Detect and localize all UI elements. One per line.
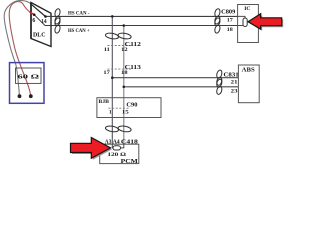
twisted pair symbol at C418 (horizontal) — [105, 125, 119, 133]
resistor IC termination capsule — [243, 18, 247, 27]
wire DLC pin 14 lead — [30, 3, 45, 16]
node junction HS CAN - / drop — [111, 15, 114, 18]
twisted pair symbol at C809, CAN + — [214, 17, 221, 26]
wire HS CAN - (top bus line) — [46, 15, 238, 17]
twisted pair symbol at C112 (horizontal) — [105, 32, 119, 40]
lead into IC resistor bottom — [238, 25, 245, 27]
twisted pair symbol at C809, CAN - — [214, 8, 221, 17]
wire vertical HS CAN - drop to PCM — [111, 16, 113, 144]
svg-text:6: 6 — [32, 18, 35, 24]
connector C113 (dashed) — [108, 68, 132, 70]
wire branch to ABS pin 21 — [112, 77, 238, 79]
wire loop from DLC pin 6 to 60 Ohm resistor (inner red curve) — [9, 2, 34, 97]
svg-text:DLC: DLC — [33, 31, 46, 38]
svg-text:C90: C90 — [126, 102, 137, 108]
resistor box 60 Ohm inner — [16, 68, 42, 83]
red callout arrow at IC — [248, 14, 282, 30]
node junction ABS branch CAN + — [123, 86, 126, 89]
svg-text:23: 23 — [231, 89, 238, 95]
twisted pair symbol at C831, CAN + — [216, 79, 223, 88]
DLC left edge (thick) — [30, 3, 32, 39]
twisted pair symbol at C831, CAN - — [216, 69, 223, 78]
node junction ABS branch CAN - — [111, 76, 114, 79]
twisted pair symbol at DLC, CAN - — [54, 8, 61, 17]
wire vertical HS CAN + drop to PCM — [123, 26, 125, 145]
svg-text:21: 21 — [231, 79, 238, 85]
svg-text:HS CAN +: HS CAN + — [68, 28, 90, 34]
svg-text:18: 18 — [227, 27, 233, 33]
svg-text:1: 1 — [109, 109, 112, 115]
red wire stub at DLC pin 6 — [30, 12, 34, 14]
red lead into pin 6 — [30, 12, 35, 15]
svg-text:BJB: BJB — [98, 99, 109, 105]
svg-text:11: 11 — [104, 47, 110, 53]
wire branch to ABS pin 23 — [124, 86, 239, 88]
svg-text:60 Ω: 60 Ω — [18, 74, 40, 81]
node DLC pin 6 — [33, 13, 36, 16]
red callout arrow at PCM — [71, 138, 111, 159]
svg-text:12: 12 — [121, 47, 128, 53]
svg-text:18: 18 — [121, 70, 128, 76]
connector C90 (dashed) — [109, 107, 129, 109]
resistor box 60 Ohm outer (blue) — [10, 63, 45, 104]
lead to 120 ohm resistor right — [120, 144, 124, 148]
svg-text:14: 14 — [41, 19, 46, 25]
node junction HS CAN + / drop — [123, 24, 126, 27]
wire from DLC pin 6 to HS CAN + exit — [34, 15, 51, 26]
svg-text:PCM: PCM — [121, 158, 138, 165]
svg-text:17: 17 — [103, 70, 110, 76]
resistor 120 Ohm (PCM termination capsule) — [113, 146, 121, 150]
svg-text:17: 17 — [227, 18, 233, 24]
lead into IC resistor top — [238, 16, 245, 18]
node 60 Ohm terminal left — [18, 94, 22, 98]
node 60 Ohm terminal right — [29, 94, 33, 98]
svg-text:ABS: ABS — [242, 68, 255, 74]
module IC box — [238, 5, 259, 43]
svg-text:HS CAN -: HS CAN - — [68, 11, 90, 17]
connector C112 (dashed) — [108, 45, 132, 47]
module ABS box — [238, 65, 259, 103]
module BJB box — [97, 98, 161, 118]
connector DLC body — [31, 3, 51, 47]
red callout arrow at IC (shadow) — [250, 15, 284, 31]
wire HS CAN + (second bus line) — [51, 25, 238, 27]
svg-text:C831: C831 — [224, 72, 239, 78]
svg-text:IC: IC — [244, 6, 250, 12]
lead to 120 ohm resistor left — [112, 144, 113, 148]
svg-text:C809: C809 — [221, 9, 235, 15]
module PCM box — [100, 144, 139, 163]
twisted pair symbol at DLC, CAN + — [54, 17, 61, 26]
wire loop from DLC pin 14 to 60 Ohm resistor (outer dark curve) — [4, 0, 45, 96]
red callout arrow at PCM (shadow) — [72, 139, 112, 160]
wire pin 14 to HS CAN - exit (inside DLC) — [46, 15, 53, 17]
wire pin 6 to HS CAN + exit (diagonal inside DLC) — [34, 15, 51, 26]
svg-text:15: 15 — [122, 109, 129, 115]
node DLC pin 14 — [44, 15, 47, 18]
